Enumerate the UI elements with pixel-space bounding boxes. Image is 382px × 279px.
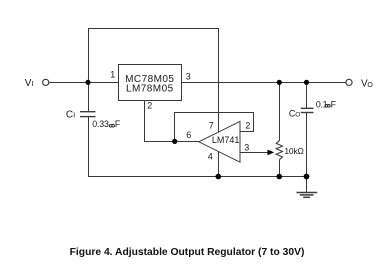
svg-text:F: F — [331, 99, 337, 109]
svg-text:3: 3 — [244, 142, 249, 152]
wire regulator pin 2 down and right to node A — [145, 101, 199, 142]
svg-text:1: 1 — [110, 70, 115, 80]
capacitor CI plates — [80, 112, 96, 117]
junction pin4 / bottom rail dot — [216, 174, 222, 180]
wire op-amp pin 4 to bottom rail — [218, 152, 220, 177]
junction node A dot — [172, 139, 177, 144]
svg-text:I: I — [73, 111, 75, 120]
wire CO bottom to ground rail — [306, 113, 308, 177]
ground symbol — [297, 193, 318, 198]
svg-text:3: 3 — [186, 72, 191, 82]
wire CO top from output rail — [306, 83, 308, 109]
wire bottom ground rail — [88, 176, 307, 178]
junction output rail / pot dot — [277, 80, 282, 85]
wire op-amp pin 3 to pot wiper — [240, 152, 268, 154]
svg-text:F: F — [115, 119, 121, 129]
svg-text:6: 6 — [186, 130, 191, 140]
wire top rail VI to op-amp V+ — [88, 28, 219, 30]
wire ground stem — [306, 177, 308, 193]
junction output rail / CO dot — [304, 80, 309, 85]
svg-text:2: 2 — [245, 121, 250, 131]
svg-text:2: 2 — [147, 100, 152, 110]
wire pot bottom to rail — [279, 160, 281, 177]
caption Figure 4 — [0, 247, 378, 258]
junction pot / bottom rail dot — [277, 174, 283, 180]
wire vertical at x=218.5 from top rail to op-amp pin 7 — [218, 28, 220, 132]
junction ground / bottom rail dot — [304, 174, 310, 180]
wire VI terminal to regulator pin 1 — [49, 82, 118, 84]
svg-text:10kΩ: 10kΩ — [284, 146, 303, 156]
wire feedback node A up over to op-amp pin 2 — [175, 113, 254, 142]
svg-text:LM741: LM741 — [212, 135, 240, 145]
svg-text:7: 7 — [209, 121, 214, 131]
capacitor CO plates — [301, 108, 314, 112]
arrowhead pot wiper — [268, 150, 275, 156]
svg-text:I: I — [32, 79, 34, 88]
svg-text:O: O — [367, 82, 373, 89]
svg-text:4: 4 — [208, 152, 213, 162]
wire below CI to bottom rail — [88, 117, 90, 177]
svg-text:LM78M05: LM78M05 — [126, 84, 174, 95]
wire left vertical input branch — [88, 28, 90, 112]
junction VI input dot — [85, 80, 90, 85]
resistor R1 10k pot zigzag — [276, 141, 282, 160]
svg-text:0.33: 0.33 — [92, 119, 109, 129]
regulator U1 MC78M05/LM78M05 box — [119, 65, 182, 101]
terminal VI circle — [43, 79, 49, 85]
svg-text:O: O — [295, 112, 300, 119]
wire pot top from output rail — [279, 83, 281, 141]
terminal VO circle — [346, 79, 352, 85]
wire regulator pin 3 to VO terminal — [182, 82, 346, 84]
svg-text:C: C — [66, 110, 73, 121]
op-amp U2 LM741 triangle — [199, 121, 240, 162]
